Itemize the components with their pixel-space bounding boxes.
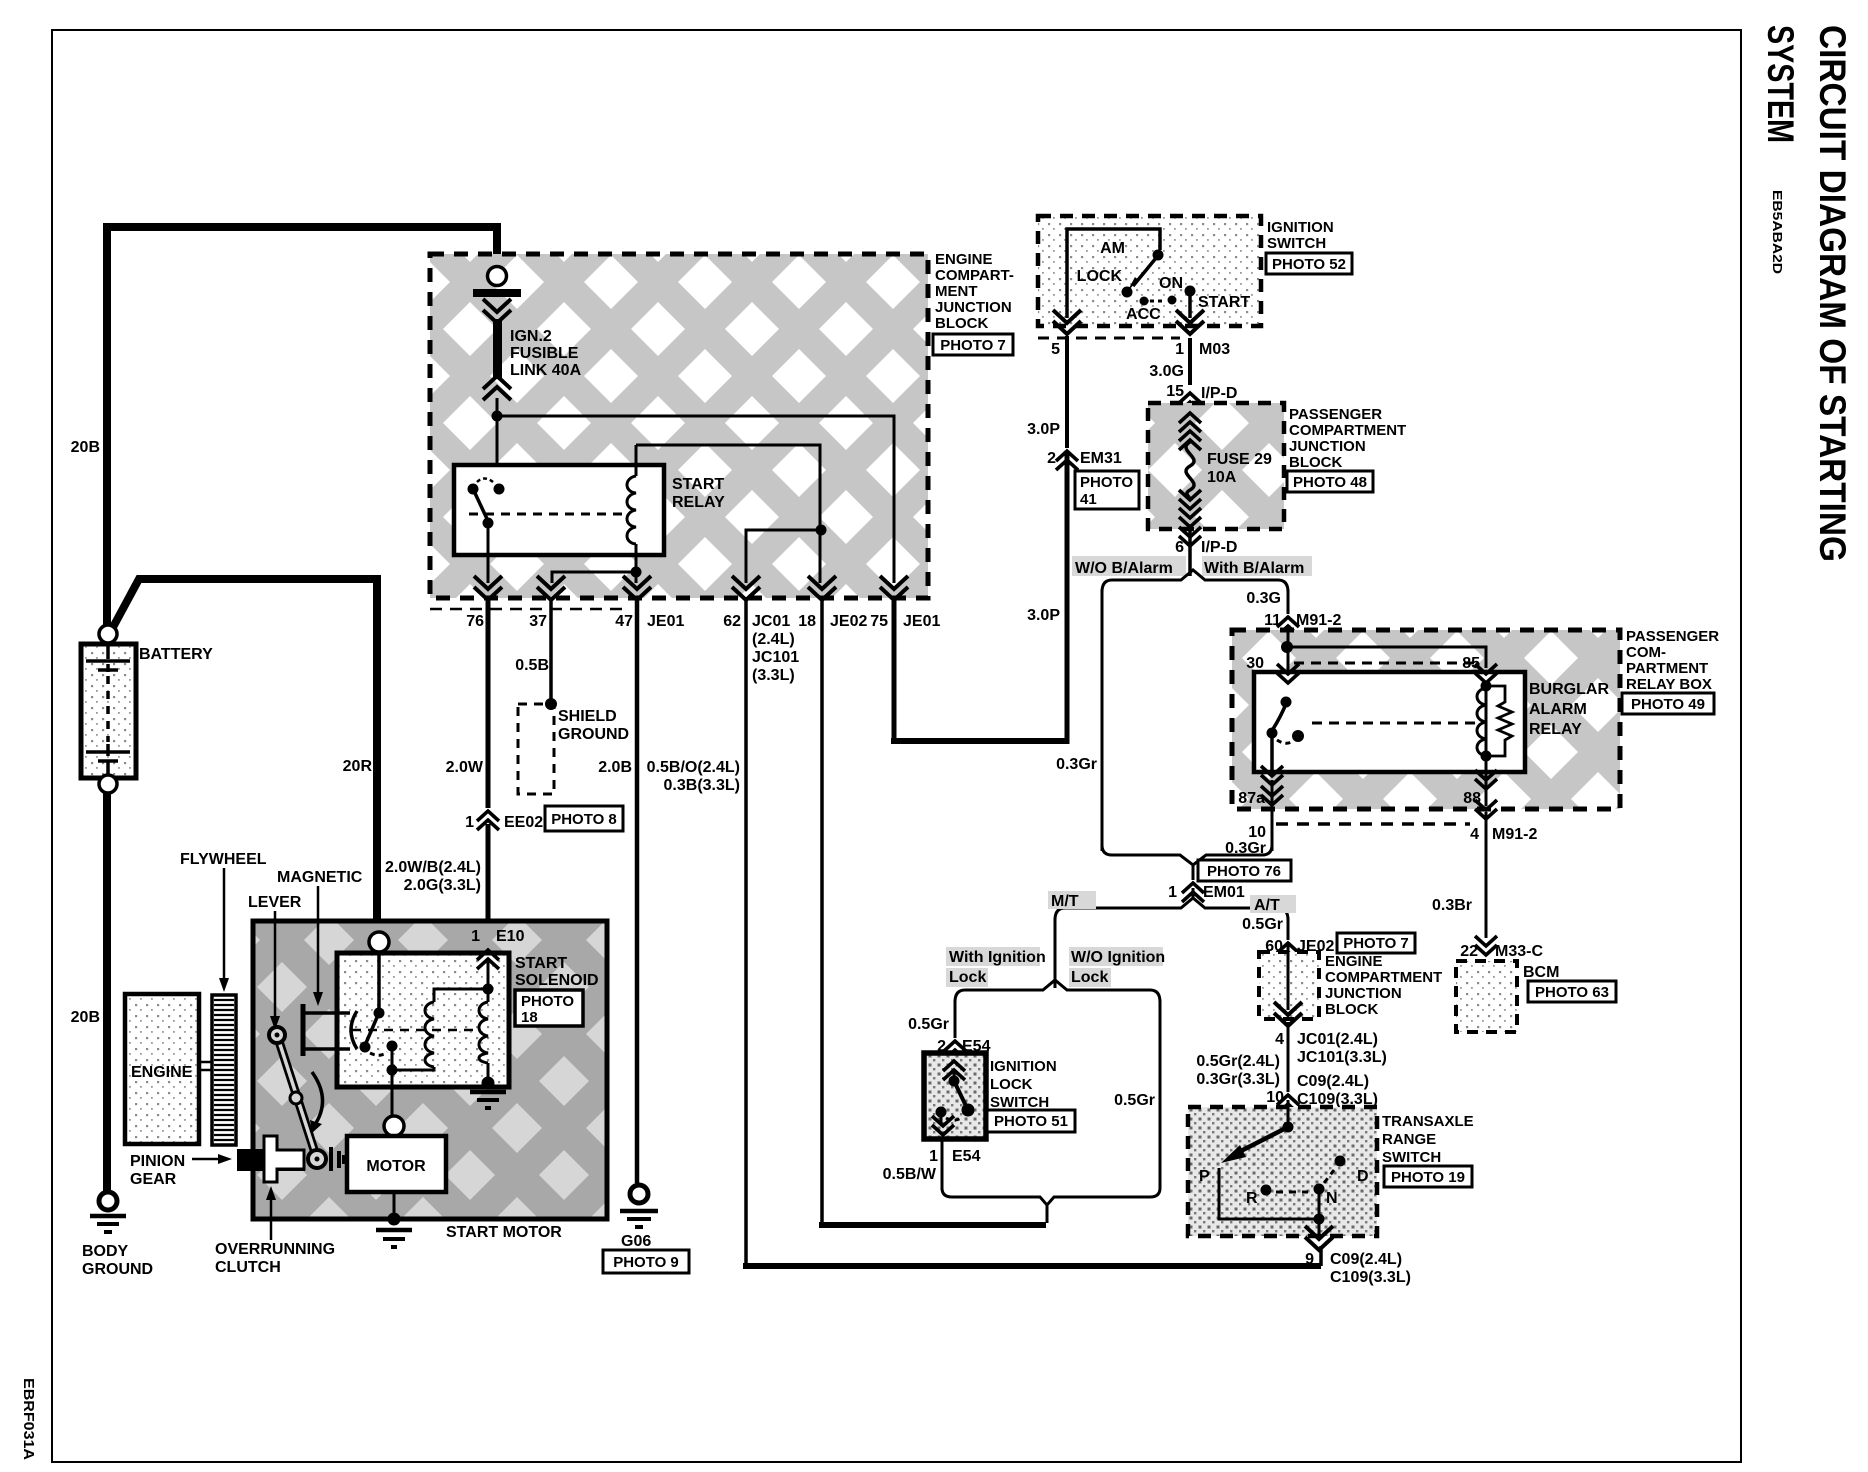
svg-text:BATTERY: BATTERY xyxy=(139,646,213,663)
svg-text:ENGINE: ENGINE xyxy=(935,251,993,268)
svg-text:4: 4 xyxy=(1470,826,1479,843)
svg-text:MAGNETIC: MAGNETIC xyxy=(277,869,363,886)
svg-text:JC101(3.3L): JC101(3.3L) xyxy=(1297,1049,1387,1066)
svg-text:C09(2.4L): C09(2.4L) xyxy=(1297,1073,1369,1090)
svg-text:BCM: BCM xyxy=(1523,964,1559,981)
svg-text:0.3B(3.3L): 0.3B(3.3L) xyxy=(664,777,740,794)
svg-text:M91-2: M91-2 xyxy=(1492,826,1537,843)
svg-text:Lock: Lock xyxy=(1071,969,1108,986)
svg-text:5: 5 xyxy=(1051,341,1060,358)
svg-text:PHOTO: PHOTO xyxy=(521,993,574,1010)
svg-text:88: 88 xyxy=(1463,790,1481,807)
svg-text:0.3Gr(3.3L): 0.3Gr(3.3L) xyxy=(1196,1071,1280,1088)
svg-text:1: 1 xyxy=(1175,341,1184,358)
svg-text:P: P xyxy=(1199,1168,1210,1185)
svg-text:BLOCK: BLOCK xyxy=(935,315,988,332)
svg-text:JC01: JC01 xyxy=(752,613,790,630)
svg-text:PHOTO 8: PHOTO 8 xyxy=(551,811,617,828)
svg-text:GROUND: GROUND xyxy=(558,726,629,743)
svg-text:41: 41 xyxy=(1080,491,1097,508)
svg-text:22: 22 xyxy=(1460,943,1478,960)
svg-text:RELAY: RELAY xyxy=(1529,721,1582,738)
svg-text:JUNCTION: JUNCTION xyxy=(1289,438,1366,455)
svg-text:I/P-D: I/P-D xyxy=(1201,539,1237,556)
svg-text:20B: 20B xyxy=(71,1009,100,1026)
svg-text:SYSTEM: SYSTEM xyxy=(1760,25,1801,143)
svg-text:CIRCUIT DIAGRAM OF STARTING: CIRCUIT DIAGRAM OF STARTING xyxy=(1812,25,1853,562)
svg-text:0.5B/W: 0.5B/W xyxy=(883,1166,937,1183)
svg-text:9: 9 xyxy=(1305,1251,1314,1268)
svg-text:EM31: EM31 xyxy=(1080,450,1122,467)
svg-text:EM01: EM01 xyxy=(1203,884,1245,901)
svg-text:IGN.2: IGN.2 xyxy=(510,328,552,345)
svg-text:M/T: M/T xyxy=(1051,893,1079,910)
svg-text:18: 18 xyxy=(798,613,816,630)
svg-text:PARTMENT: PARTMENT xyxy=(1626,660,1708,677)
svg-text:0.5B/O(2.4L): 0.5B/O(2.4L) xyxy=(647,759,740,776)
svg-text:W/O Ignition: W/O Ignition xyxy=(1071,949,1165,966)
svg-text:2.0W: 2.0W xyxy=(446,759,484,776)
svg-text:START: START xyxy=(672,476,724,493)
svg-text:1: 1 xyxy=(471,928,480,945)
svg-text:18: 18 xyxy=(521,1009,538,1026)
svg-text:RELAY: RELAY xyxy=(672,494,725,511)
svg-text:EE02: EE02 xyxy=(504,814,543,831)
svg-text:10: 10 xyxy=(1266,1089,1284,1106)
svg-text:CLUTCH: CLUTCH xyxy=(215,1259,281,1276)
svg-text:15: 15 xyxy=(1166,383,1184,400)
svg-text:SOLENOID: SOLENOID xyxy=(515,972,599,989)
svg-text:C109(3.3L): C109(3.3L) xyxy=(1330,1269,1411,1286)
svg-text:LEVER: LEVER xyxy=(248,894,302,911)
svg-text:LINK 40A: LINK 40A xyxy=(510,362,582,379)
svg-text:JUNCTION: JUNCTION xyxy=(1325,985,1402,1002)
svg-text:GROUND: GROUND xyxy=(82,1261,153,1278)
svg-text:BLOCK: BLOCK xyxy=(1325,1001,1378,1018)
svg-text:M03: M03 xyxy=(1199,341,1230,358)
svg-text:START: START xyxy=(1198,294,1250,311)
svg-text:N: N xyxy=(1326,1190,1338,1207)
svg-text:JUNCTION: JUNCTION xyxy=(935,299,1012,316)
svg-text:1: 1 xyxy=(1168,884,1177,901)
svg-text:PHOTO: PHOTO xyxy=(1080,474,1133,491)
svg-text:C09(2.4L): C09(2.4L) xyxy=(1330,1251,1402,1268)
svg-text:PASSENGER: PASSENGER xyxy=(1626,628,1719,645)
svg-text:PHOTO 48: PHOTO 48 xyxy=(1293,474,1367,491)
svg-text:SWITCH: SWITCH xyxy=(1267,235,1326,252)
svg-text:0.5Gr: 0.5Gr xyxy=(1114,1092,1155,1109)
svg-text:With B/Alarm: With B/Alarm xyxy=(1204,560,1304,577)
svg-text:PHOTO 51: PHOTO 51 xyxy=(994,1113,1068,1130)
svg-text:37: 37 xyxy=(529,613,547,630)
svg-text:EB5ABA2D: EB5ABA2D xyxy=(1770,190,1785,274)
svg-text:R: R xyxy=(1246,1190,1258,1207)
svg-text:20R: 20R xyxy=(343,758,373,775)
svg-text:(3.3L): (3.3L) xyxy=(752,667,795,684)
svg-text:PHOTO 7: PHOTO 7 xyxy=(940,337,1006,354)
svg-text:PHOTO 9: PHOTO 9 xyxy=(613,1254,679,1271)
svg-text:E54: E54 xyxy=(952,1148,981,1165)
svg-text:87a: 87a xyxy=(1238,790,1265,807)
svg-text:M33-C: M33-C xyxy=(1495,943,1543,960)
svg-text:MOTOR: MOTOR xyxy=(366,1158,426,1175)
svg-text:G06: G06 xyxy=(621,1233,651,1250)
svg-text:JC01(2.4L): JC01(2.4L) xyxy=(1297,1031,1378,1048)
svg-text:BURGLAR: BURGLAR xyxy=(1529,681,1609,698)
svg-text:COMPARTMENT: COMPARTMENT xyxy=(1289,422,1406,439)
svg-text:62: 62 xyxy=(723,613,741,630)
svg-text:ON: ON xyxy=(1159,275,1183,292)
svg-text:ACC: ACC xyxy=(1126,306,1161,323)
svg-text:(2.4L): (2.4L) xyxy=(752,631,795,648)
svg-text:2: 2 xyxy=(1047,450,1056,467)
svg-text:START MOTOR: START MOTOR xyxy=(446,1224,562,1241)
svg-text:D: D xyxy=(1357,1168,1369,1185)
svg-text:6: 6 xyxy=(1175,539,1184,556)
svg-text:M91-2: M91-2 xyxy=(1296,612,1341,629)
svg-text:0.3Br: 0.3Br xyxy=(1432,897,1472,914)
svg-text:RANGE: RANGE xyxy=(1382,1131,1436,1148)
svg-text:COM-: COM- xyxy=(1626,644,1666,661)
svg-text:4: 4 xyxy=(1275,1031,1284,1048)
svg-text:11: 11 xyxy=(1264,612,1281,629)
svg-text:MENT: MENT xyxy=(935,283,978,300)
svg-text:TRANSAXLE: TRANSAXLE xyxy=(1382,1113,1474,1130)
svg-text:75: 75 xyxy=(870,613,888,630)
svg-text:1: 1 xyxy=(929,1148,938,1165)
svg-text:JE01: JE01 xyxy=(647,613,684,630)
svg-text:30: 30 xyxy=(1246,655,1264,672)
svg-text:3.0G: 3.0G xyxy=(1149,363,1184,380)
svg-text:PHOTO 76: PHOTO 76 xyxy=(1207,863,1281,880)
svg-text:PHOTO 52: PHOTO 52 xyxy=(1272,256,1346,273)
svg-text:47: 47 xyxy=(615,613,633,630)
svg-text:FUSE 29: FUSE 29 xyxy=(1207,451,1272,468)
svg-text:ALARM: ALARM xyxy=(1529,701,1587,718)
svg-text:0.5Gr: 0.5Gr xyxy=(1242,916,1283,933)
svg-text:10: 10 xyxy=(1248,824,1266,841)
svg-text:BODY: BODY xyxy=(82,1243,129,1260)
svg-text:SWITCH: SWITCH xyxy=(1382,1149,1441,1166)
svg-text:A/T: A/T xyxy=(1254,897,1280,914)
svg-text:With Ignition: With Ignition xyxy=(949,949,1046,966)
svg-text:Lock: Lock xyxy=(949,969,986,986)
svg-text:20B: 20B xyxy=(71,439,100,456)
svg-text:FLYWHEEL: FLYWHEEL xyxy=(180,851,267,868)
svg-text:JE02: JE02 xyxy=(830,613,867,630)
svg-text:RELAY BOX: RELAY BOX xyxy=(1626,676,1712,693)
svg-text:LOCK: LOCK xyxy=(990,1076,1033,1093)
svg-text:0.5B: 0.5B xyxy=(515,657,549,674)
svg-text:PHOTO 7: PHOTO 7 xyxy=(1343,935,1409,952)
svg-text:3.0P: 3.0P xyxy=(1027,607,1060,624)
svg-text:OVERRUNNING: OVERRUNNING xyxy=(215,1241,335,1258)
svg-text:IGNITION: IGNITION xyxy=(1267,219,1334,236)
svg-text:0.5Gr: 0.5Gr xyxy=(908,1016,949,1033)
svg-text:3.0P: 3.0P xyxy=(1027,421,1060,438)
svg-text:E10: E10 xyxy=(496,928,525,945)
svg-text:COMPARTMENT: COMPARTMENT xyxy=(1325,969,1442,986)
svg-text:2.0W/B(2.4L): 2.0W/B(2.4L) xyxy=(385,859,481,876)
svg-text:W/O B/Alarm: W/O B/Alarm xyxy=(1075,560,1173,577)
svg-text:GEAR: GEAR xyxy=(130,1171,177,1188)
svg-text:IGNITION: IGNITION xyxy=(990,1058,1057,1075)
svg-text:LOCK: LOCK xyxy=(1077,268,1123,285)
svg-text:SWITCH: SWITCH xyxy=(990,1094,1049,1111)
svg-text:PASSENGER: PASSENGER xyxy=(1289,406,1382,423)
svg-text:0.3Gr: 0.3Gr xyxy=(1056,756,1097,773)
svg-text:BLOCK: BLOCK xyxy=(1289,454,1342,471)
svg-text:I/P-D: I/P-D xyxy=(1201,385,1237,402)
svg-text:0.3G: 0.3G xyxy=(1246,590,1281,607)
svg-text:EBRF031A: EBRF031A xyxy=(20,1378,37,1460)
svg-text:85: 85 xyxy=(1462,655,1480,672)
svg-text:JE01: JE01 xyxy=(903,613,940,630)
svg-text:AM: AM xyxy=(1100,240,1125,257)
svg-text:0.5Gr(2.4L): 0.5Gr(2.4L) xyxy=(1196,1053,1280,1070)
svg-text:PHOTO 63: PHOTO 63 xyxy=(1535,984,1609,1001)
svg-text:PHOTO 49: PHOTO 49 xyxy=(1631,696,1705,713)
svg-text:2.0B: 2.0B xyxy=(598,759,632,776)
svg-text:2.0G(3.3L): 2.0G(3.3L) xyxy=(404,877,481,894)
svg-text:COMPART-: COMPART- xyxy=(935,267,1014,284)
svg-text:10A: 10A xyxy=(1207,469,1237,486)
svg-text:ENGINE: ENGINE xyxy=(1325,953,1383,970)
svg-text:FUSIBLE: FUSIBLE xyxy=(510,345,579,362)
svg-text:JC101: JC101 xyxy=(752,649,799,666)
svg-text:PHOTO 19: PHOTO 19 xyxy=(1391,1169,1465,1186)
svg-text:START: START xyxy=(515,955,567,972)
svg-text:PINION: PINION xyxy=(130,1153,185,1170)
svg-text:ENGINE: ENGINE xyxy=(131,1064,193,1081)
svg-text:1: 1 xyxy=(465,814,474,831)
svg-text:76: 76 xyxy=(466,613,484,630)
svg-text:SHIELD: SHIELD xyxy=(558,708,617,725)
